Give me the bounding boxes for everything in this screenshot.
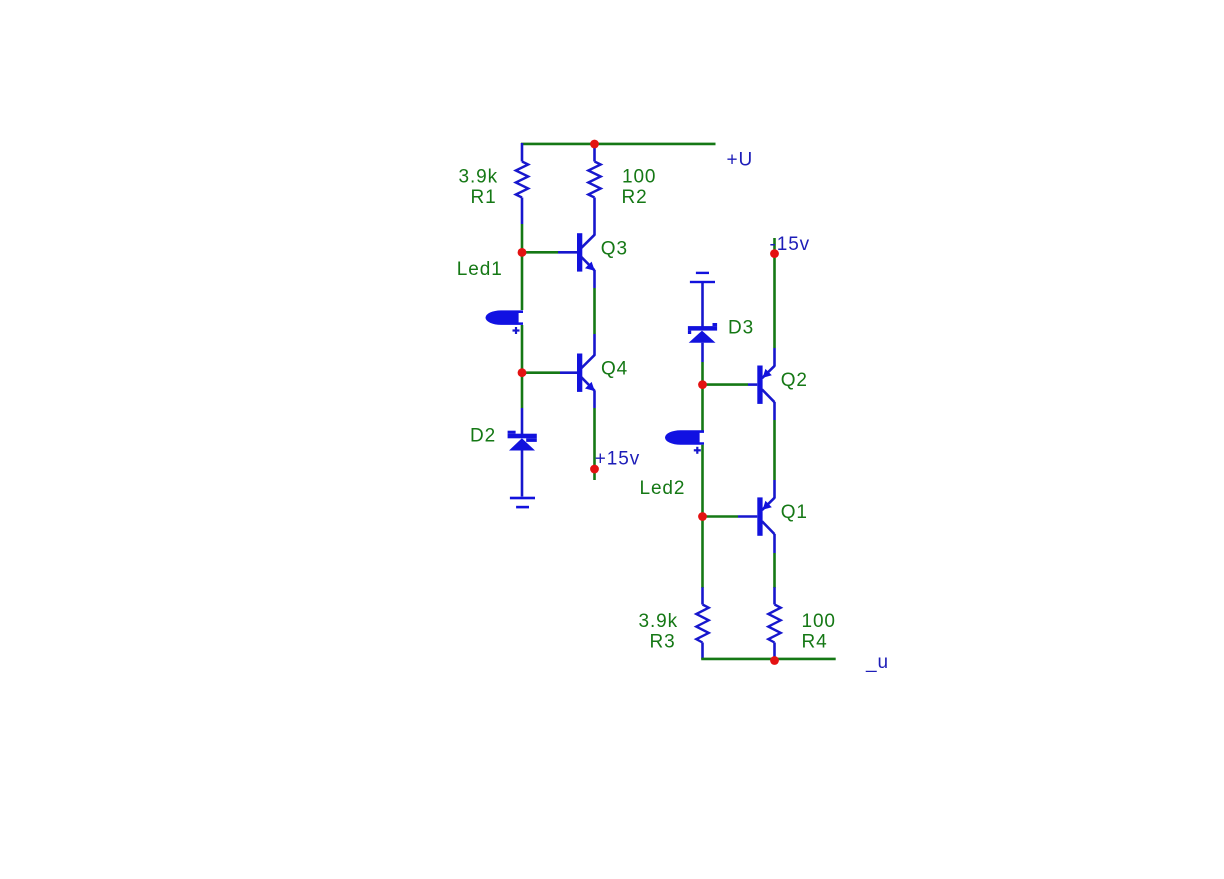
wire node to D2 <box>521 373 524 408</box>
svg-text:R2: R2 <box>622 187 648 208</box>
wire Q1 base (green part) <box>703 515 739 518</box>
svg-text:D3: D3 <box>728 317 754 338</box>
node -15v <box>770 249 779 258</box>
node bottom rail junction <box>770 656 779 665</box>
svg-text:D2: D2 <box>470 426 496 447</box>
transistor Q4 <box>560 334 595 408</box>
wire Q3 base (green part) <box>522 251 558 254</box>
wire -15v stub <box>773 238 776 348</box>
svg-text:3.9k: 3.9k <box>639 611 679 632</box>
transistor Q3 <box>558 233 595 288</box>
wire Q3 emitter to Q4 collector <box>593 288 596 334</box>
wire node to Led1 <box>521 252 524 310</box>
wire Q2 collector to Q1 emitter <box>773 420 776 480</box>
wire Led2 to Q1 base node <box>701 445 704 517</box>
svg-text:100: 100 <box>622 166 656 187</box>
resistor R4 <box>768 587 780 659</box>
svg-text:100: 100 <box>802 611 836 632</box>
transistor Q2 <box>748 348 775 420</box>
wire D3 to Q2 base node <box>701 362 704 385</box>
svg-text:Q3: Q3 <box>601 239 628 260</box>
diode D2 (zener) <box>508 408 537 497</box>
svg-text:-15v: -15v <box>770 234 811 255</box>
diode D3 (zener) <box>688 283 717 362</box>
wire top +U rail <box>521 143 716 146</box>
svg-text:Q2: Q2 <box>781 370 808 391</box>
wire Q4 base (green part) <box>522 371 560 374</box>
svg-text:+U: +U <box>727 150 754 171</box>
svg-text:Q1: Q1 <box>781 502 808 523</box>
resistor R2 <box>588 145 600 236</box>
wire Q4 emitter to +15v <box>593 408 596 480</box>
wire R1 to Q3 base node <box>521 224 524 253</box>
ground below D2 <box>510 497 535 509</box>
node +15v <box>590 465 599 474</box>
wire Q1 collector to R4 <box>773 553 776 588</box>
wire Led1 to Q4 base node <box>521 325 524 373</box>
svg-text:Q4: Q4 <box>601 358 628 379</box>
svg-text:Led2: Led2 <box>640 478 686 499</box>
node Q4 base junction <box>518 368 527 377</box>
resistor R1 <box>516 143 528 224</box>
svg-text:R1: R1 <box>471 187 497 208</box>
svg-text:+15v: +15v <box>595 448 640 469</box>
resistor R3 <box>696 587 708 659</box>
svg-text:3.9k: 3.9k <box>459 166 499 187</box>
wire Q1 base node to R3 <box>701 517 704 589</box>
node Q3 base junction <box>518 248 527 257</box>
svg-text:_u: _u <box>865 652 889 673</box>
negative terminal above D3 <box>690 272 715 283</box>
LED Led1 <box>485 310 523 334</box>
node Q2 base junction <box>698 380 707 389</box>
node Q1 base junction <box>698 512 707 521</box>
wire node to Led2 <box>701 385 704 431</box>
wire Q2 base (green part) <box>703 383 749 386</box>
node top rail junction <box>590 140 599 149</box>
svg-text:Led1: Led1 <box>457 259 503 280</box>
LED Led2 <box>665 430 704 454</box>
svg-text:R4: R4 <box>802 631 828 652</box>
transistor Q1 <box>738 480 775 553</box>
wire bottom _u rail <box>701 658 836 661</box>
svg-text:R3: R3 <box>650 631 676 652</box>
